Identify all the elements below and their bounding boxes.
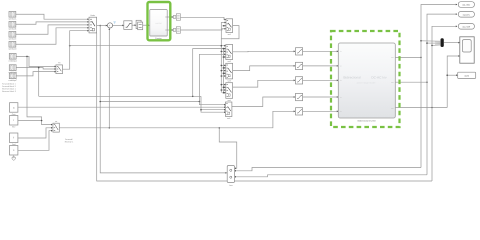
wire: selector line y=96.3 with staircase riser x=192.7 to S2 input2 (39, 95, 201, 97)
svg-text:out_Vref: out_Vref (463, 25, 471, 28)
svg-text:sw2: sw2 (228, 60, 231, 63)
wire: long feed line y=45.7 to switch S2 input1 (70, 45, 226, 47)
source block A1 (9, 12, 16, 18)
sum block (107, 23, 112, 28)
svg-text:sw5: sw5 (227, 117, 230, 120)
wire: bus vertical x=221.3 with stubs to S2 S3 S4 (220, 39, 222, 93)
svg-text:Bidirectional: Bidirectional (343, 76, 361, 80)
svg-text:Mode: Mode (90, 14, 95, 17)
sample block P5 (296, 108, 303, 115)
multiport switch MS0 (89, 17, 97, 33)
wire: P4 into inverter input4 (303, 96, 338, 98)
out-block below scope (458, 72, 476, 78)
wire: S5 output up to P4 (232, 97, 295, 107)
wire: bottom return y=167.5 to bus creator right input1 (235, 168, 421, 171)
wire: C1 long line y=107.2 to S5 input2 (18, 106, 225, 108)
switch S2 (226, 45, 233, 60)
wire: branch from B2 wire down x=38.7 to selector line y=96.3 (38, 68, 40, 97)
to-file pair 2 (173, 29, 176, 32)
wire: mux input from riser B (427, 42, 440, 44)
svg-text:out/s: out/s (465, 74, 469, 77)
wire: mux output to scope input1 (444, 42, 460, 44)
constant block C4 (10, 146, 18, 156)
wire: S1 output feedback staple to its input2 (221, 23, 239, 39)
svg-text:power stage model: power stage model (357, 82, 376, 85)
wire: S2 output to P1 (233, 50, 295, 53)
wire: scope input2 riser from inverter out3 (447, 56, 459, 108)
svg-text:rpmBusB: rpmBusB (9, 28, 18, 31)
wire: selector line y=101.5 with staircase riser x=199.4 to S2 input4 (100, 101, 199, 103)
wire: S3 output to P2 (233, 66, 295, 71)
wire: mux input from riser C (432, 44, 440, 47)
svg-text:Counter: Counter (155, 37, 162, 40)
wire: vertical x=96.7 from MS0 bottom down to long bottom loop y=181 (97, 33, 432, 181)
source block B1 (9, 54, 16, 60)
outport out3 (458, 24, 474, 30)
wire: y=101.5 tail to S5 input1 (199, 102, 225, 105)
wire: riser A to outport1 and bottom loop (421, 5, 457, 168)
wire: mux wedge shading (435, 41, 440, 43)
svg-text:sw4: sw4 (228, 99, 231, 102)
source block B3 (9, 73, 16, 79)
wire: inverter out1 to riser A (395, 56, 421, 58)
rate limiter block (124, 21, 132, 30)
wire: rate limiter to relay (132, 24, 136, 26)
bottom bus creator block (227, 166, 234, 183)
svg-text:Forward /: Forward / (65, 138, 73, 141)
bidirectional inverter big block (338, 43, 395, 118)
sample block P4 (296, 93, 303, 100)
wire: vertical feedback x=100.2 down then right into bus creator left input (100, 26, 226, 173)
wire: riser B to outport2 and bottom loop (427, 14, 457, 175)
wire: sum bottom input riser from FR2 output line (108, 29, 110, 128)
outport out2 (458, 12, 474, 18)
wire: source A2 to MS0 input 2 (16, 22, 89, 24)
to-file pair 1 (173, 16, 176, 19)
wire: source A3 to MS0 input 3 (16, 25, 89, 34)
svg-text:rpmBusA: rpmBusA (9, 18, 18, 21)
wire: B3 to FR1 input3 (16, 72, 56, 76)
wire: y=96.3 tail down to S5 stubs (201, 96, 225, 112)
switch S5 (226, 102, 232, 117)
svg-text:rpmBusD: rpmBusD (8, 48, 17, 51)
wire: branch from FR2 line down to bus creator top (219, 128, 237, 169)
wire: C2 joins x=41.6 branch to FR2 input1 (18, 120, 41, 122)
svg-text:cmdMapC: cmdMapC (8, 79, 17, 82)
wire: MS0 output to sum (97, 25, 107, 27)
wire: C3 to FR2 input2 (18, 128, 52, 138)
selected subsystem block (150, 10, 167, 36)
svg-text:cmdMapA: cmdMapA (8, 60, 17, 63)
source block A3 (9, 32, 16, 38)
scope block (460, 37, 474, 63)
terminator below C4 (12, 157, 15, 160)
svg-text:Rev: Rev (12, 126, 15, 129)
svg-text:DC-AC Inv: DC-AC Inv (371, 76, 387, 80)
wire: inverter out2 to riser B (395, 81, 427, 83)
source block B2 (9, 65, 16, 71)
svg-text:sw1: sw1 (228, 33, 231, 36)
wire: source A1 to switch MS0 input 1 (16, 14, 89, 19)
svg-text:sw: sw (55, 121, 58, 123)
wire: subsystem out2 to pair2 (167, 29, 173, 31)
wire: B1 to FR1 input1, branch down x=27 (16, 56, 56, 66)
wire: inverter out3 continues to scope riser (395, 107, 447, 109)
wire: C4 to FR2 input3 (18, 131, 52, 151)
svg-text:FR: FR (58, 62, 61, 65)
wire: pair1 to switch S1 input1 (180, 17, 225, 19)
svg-text:Reverse 1: Reverse 1 (65, 141, 74, 144)
constant block C1 (10, 103, 18, 113)
wire: bottom return y=174.8 to bus creator right input2 (235, 175, 427, 177)
selected subsystem green highlight (148, 2, 171, 40)
sample block P3 (296, 77, 303, 84)
Forward/Reverse switch 2 (53, 123, 59, 132)
switch S4 (226, 83, 233, 99)
source block A4 (9, 42, 16, 48)
wire stub: S1 input 3 from bus (223, 25, 225, 27)
wire: bus vertical x=223.4 with stubs (222, 49, 224, 93)
svg-text:out_Iinv: out_Iinv (463, 13, 470, 16)
svg-text:Reverse Block 2: Reverse Block 2 (2, 90, 16, 93)
wire: P5 into inverter input5 (303, 110, 338, 112)
mux bar before scope (441, 38, 444, 47)
dashed green selection box (331, 31, 400, 127)
wire: sum to rate limiter (113, 24, 124, 26)
constant block C3 (10, 133, 18, 143)
wire: riser C to outport3 and bottom loop (432, 26, 457, 181)
wire: P1 into inverter input1 (303, 50, 338, 52)
wire: branch from B1 wire down x=27 to FR2 via x=41.6 (27, 56, 52, 124)
relay block (two offset rects) (136, 20, 141, 28)
source block A2 (9, 22, 16, 28)
wire: S4 output to P3 (233, 80, 295, 87)
sample block P2 (296, 62, 303, 69)
svg-text:out_Vinv: out_Vinv (462, 4, 470, 7)
svg-text:rpmBusC: rpmBusC (8, 38, 17, 41)
switch S3 (226, 63, 233, 79)
svg-text:Bidirectional Inverter: Bidirectional Inverter (358, 120, 377, 123)
svg-text:sw3: sw3 (228, 79, 231, 82)
svg-text:control: control (155, 22, 162, 25)
wire: source A4 to MS0 input 4 (16, 28, 89, 44)
sample block P1 (296, 48, 303, 55)
Forward/Reverse switch 1 (56, 65, 63, 74)
wire: mux input from riser A (421, 40, 440, 42)
wire: branch to out-block below scope (447, 74, 457, 76)
outport out1 (458, 2, 474, 8)
wire: B2 to FR1 input2 (16, 68, 56, 69)
wire: P3 into inverter input3 (303, 79, 338, 81)
constant block C2 (10, 116, 18, 126)
wire: pair2 to switch S1 input4 (180, 29, 225, 30)
svg-text:bus: bus (229, 184, 232, 187)
wire: subsystem out1 to pair1 (167, 16, 173, 18)
wire: relay to subsystem (143, 24, 150, 26)
wire: P2 into inverter input2 (303, 65, 338, 67)
switch S1 (226, 19, 233, 33)
annotation small blue triangle (113, 21, 116, 24)
wire: FR1 output riser to multiport switch input 5 (63, 31, 89, 69)
wire: FR2 output long line under stack then up into P5 (60, 111, 295, 128)
